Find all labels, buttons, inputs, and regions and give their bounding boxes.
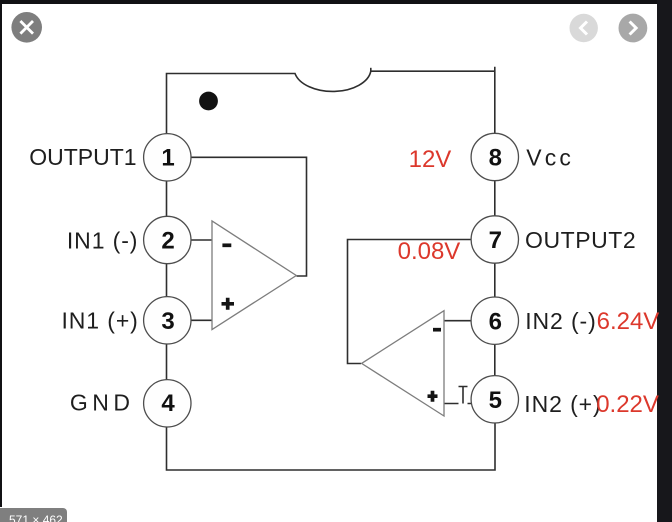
svg-text:0.08V: 0.08V (398, 238, 461, 265)
svg-text:7: 7 (489, 227, 502, 254)
svg-text:2: 2 (161, 227, 174, 254)
svg-text:4: 4 (161, 390, 175, 417)
svg-text:6: 6 (489, 308, 502, 335)
svg-text:0.22V: 0.22V (596, 391, 659, 418)
svg-text:Vcc: Vcc (526, 145, 574, 171)
svg-text:3: 3 (161, 308, 174, 335)
svg-text:IN1 (-): IN1 (-) (67, 228, 138, 254)
svg-text:OUTPUT1: OUTPUT1 (29, 144, 136, 170)
svg-text:1: 1 (161, 145, 174, 172)
svg-text:8: 8 (489, 144, 502, 171)
svg-text:6.24V: 6.24V (597, 308, 660, 335)
svg-text:IN2 (-): IN2 (-) (525, 308, 596, 334)
svg-text:IN2 (+): IN2 (+) (524, 391, 601, 417)
svg-text:12V: 12V (409, 146, 452, 173)
svg-text:GND: GND (70, 390, 135, 416)
svg-text:IN1 (+): IN1 (+) (62, 308, 139, 334)
svg-text:5: 5 (489, 387, 502, 414)
svg-text:OUTPUT2: OUTPUT2 (525, 227, 636, 253)
